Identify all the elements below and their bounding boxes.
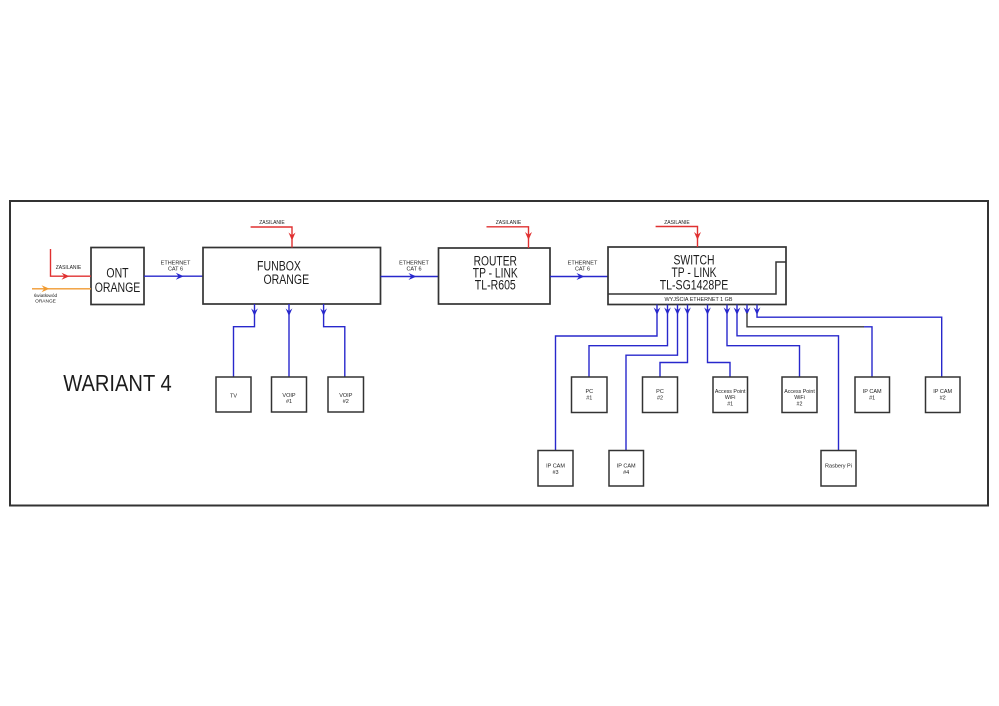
svg-text:ORANGE: ORANGE xyxy=(264,272,310,287)
svg-text:Access Point: Access Point xyxy=(784,389,815,395)
svg-text:IP CAM: IP CAM xyxy=(933,389,952,395)
wire SWITCH to IP CAM #3 (blue) xyxy=(556,305,661,451)
svg-text:IP CAM: IP CAM xyxy=(863,389,882,395)
wire SWITCH to IP CAM #1 (blue arrow, black run) xyxy=(744,305,872,378)
wire SWITCH to PC #2 (blue) xyxy=(660,305,691,378)
svg-text:Access Point: Access Point xyxy=(715,389,746,395)
svg-text:Rasbery Pi: Rasbery Pi xyxy=(825,463,852,469)
svg-text:WYJŚCIA ETHERNET 1 GB: WYJŚCIA ETHERNET 1 GB xyxy=(665,295,733,303)
svg-text:IP CAM: IP CAM xyxy=(617,464,636,470)
svg-text:VOIP: VOIP xyxy=(339,393,352,399)
svg-text:światłowód: światłowód xyxy=(34,293,58,299)
wire ZASILANIE to FUNBOX (red) xyxy=(251,220,296,247)
box IP CAM #3 xyxy=(538,451,573,487)
svg-text:#1: #1 xyxy=(727,402,733,408)
svg-text:ZASILANIE: ZASILANIE xyxy=(259,220,285,226)
svg-text:ONT: ONT xyxy=(106,266,128,281)
svg-text:CAT 6: CAT 6 xyxy=(168,266,183,272)
box IP CAM #2 xyxy=(926,377,961,413)
box ONT ORANGE xyxy=(91,248,144,305)
wire ZASILANIE to SWITCH (red) xyxy=(656,220,701,247)
wire FUNBOX to ROUTER ETHERNET CAT 6 (blue) xyxy=(381,261,439,280)
box ROUTER TP-LINK TL-R605 xyxy=(439,248,551,304)
wire SWITCH to PC #1 (blue) xyxy=(589,305,671,378)
box PC #2 xyxy=(643,377,678,413)
svg-text:#2: #2 xyxy=(343,399,349,405)
svg-text:#4: #4 xyxy=(623,470,629,476)
box SWITCH TP-LINK TL-SG1428PE xyxy=(608,247,786,305)
box Rasbery Pi xyxy=(821,451,856,487)
box VOIP #2 xyxy=(328,377,364,412)
svg-text:CAT 6: CAT 6 xyxy=(406,266,421,272)
svg-text:TV: TV xyxy=(230,393,237,399)
svg-text:WARIANT 4: WARIANT 4 xyxy=(63,370,172,396)
svg-text:ZASILANIE: ZASILANIE xyxy=(664,220,690,226)
box FUNBOX ORANGE xyxy=(203,248,381,305)
wire swiatlowod ORANGE (orange) xyxy=(32,285,91,304)
svg-text:#1: #1 xyxy=(586,396,592,402)
wire SWITCH to IP CAM #4 (blue) xyxy=(626,305,681,451)
svg-text:IP CAM: IP CAM xyxy=(546,464,565,470)
svg-text:TL-R605: TL-R605 xyxy=(475,278,516,293)
svg-text:WiFi: WiFi xyxy=(725,395,736,401)
svg-text:#1: #1 xyxy=(286,399,292,405)
wire FUNBOX to VOIP #2 (blue) xyxy=(320,304,345,377)
svg-text:PC: PC xyxy=(656,389,664,395)
wire ZASILANIE to ROUTER (red) xyxy=(487,220,533,248)
svg-text:PC: PC xyxy=(585,389,593,395)
svg-text:ZASILANIE: ZASILANIE xyxy=(496,220,522,226)
frame border xyxy=(10,201,988,506)
svg-text:WiFi: WiFi xyxy=(794,395,805,401)
svg-text:ORANGE: ORANGE xyxy=(35,299,56,305)
wire SWITCH to IP CAM #2 (blue) xyxy=(754,305,942,378)
wire FUNBOX to TV (blue) xyxy=(234,304,258,377)
svg-text:VOIP: VOIP xyxy=(282,393,295,399)
svg-text:#1: #1 xyxy=(869,396,875,402)
wire FUNBOX to VOIP #1 (blue) xyxy=(286,304,293,377)
svg-text:ZASILANIE: ZASILANIE xyxy=(56,265,82,271)
box VOIP #1 xyxy=(272,377,307,412)
wire SWITCH to Access Point WiFi #1 (blue) xyxy=(704,305,730,378)
wire ROUTER to SWITCH ETHERNET CAT 6 (blue) xyxy=(550,261,608,280)
box TV xyxy=(216,377,251,412)
box IP CAM #1 xyxy=(855,377,890,413)
switch output strip WYJSCIA ETHERNET 1 GB xyxy=(608,262,786,303)
svg-text:#2: #2 xyxy=(657,396,663,402)
wire ONT to FUNBOX ETHERNET CAT 6 (blue) xyxy=(144,261,203,280)
box PC #1 xyxy=(572,377,608,413)
svg-text:#3: #3 xyxy=(552,470,558,476)
wire SWITCH to Access Point WiFi #2 (blue) xyxy=(724,305,800,378)
svg-text:#2: #2 xyxy=(940,396,946,402)
svg-text:CAT 6: CAT 6 xyxy=(575,266,590,272)
wire ZASILANIE to ONT (red) xyxy=(51,249,92,280)
wire SWITCH to Rasbery Pi (blue) xyxy=(734,305,839,451)
box Access Point WiFi #2 xyxy=(782,377,817,413)
svg-text:#2: #2 xyxy=(797,402,803,408)
svg-text:ORANGE: ORANGE xyxy=(95,280,141,295)
box IP CAM #4 xyxy=(609,451,644,487)
box Access Point WiFi #1 xyxy=(713,377,748,413)
svg-text:TL-SG1428PE: TL-SG1428PE xyxy=(660,277,729,292)
